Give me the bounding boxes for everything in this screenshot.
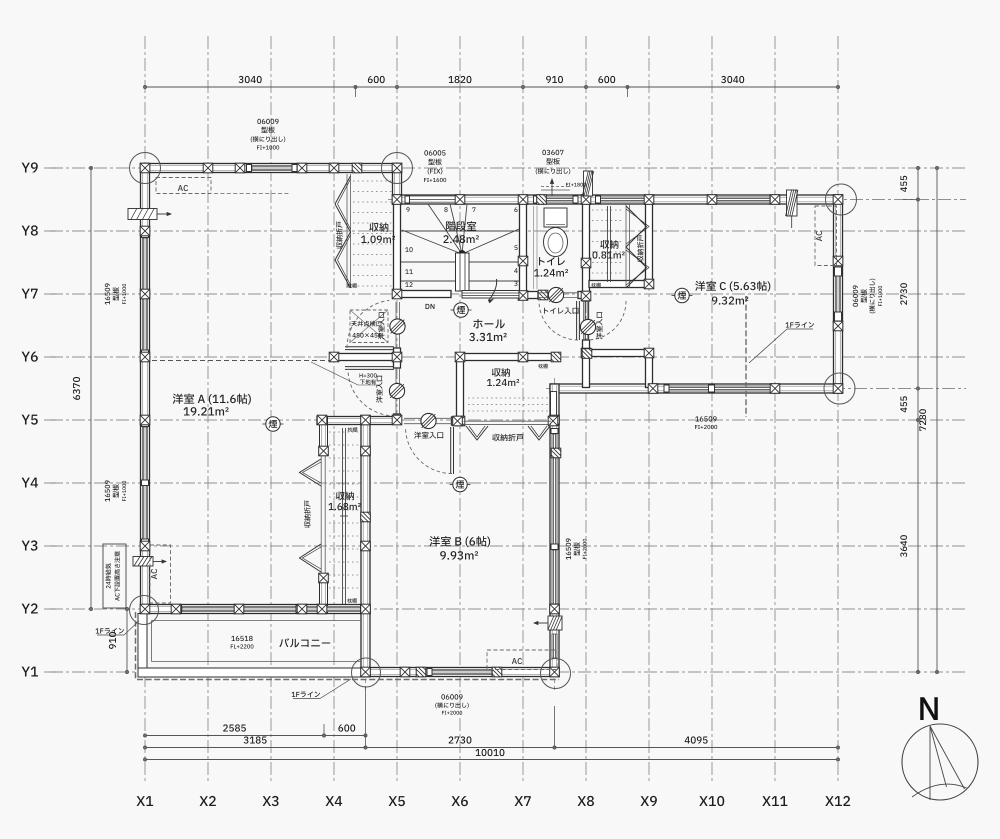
balcony west parapet	[138, 614, 147, 678]
stair tread numbers	[406, 207, 409, 212]
room B door leaf	[450, 427, 452, 474]
vent north wall at X8	[584, 171, 593, 196]
exterior wall: room C south wall	[550, 384, 843, 393]
closet1.09 folding door (west side)	[346, 174, 348, 288]
room A lower door leaf	[345, 366, 394, 368]
stair DN label	[426, 304, 435, 309]
closet1.68 hanger pipe	[342, 428, 344, 604]
bottom dimension row 3185/2730/4095	[145, 747, 838, 749]
corner node circles	[130, 153, 161, 184]
24h vent note box	[103, 544, 126, 608]
grid: offset wall centerlines (chain)	[388, 199, 966, 201]
balcony floor inner outline	[152, 620, 362, 622]
wall: closet0.81 east X9 (upper)	[646, 204, 653, 288]
axis labels Y9-Y1	[22, 667, 38, 677]
label roomC entrance	[596, 312, 602, 339]
wall: room C west X8 (below door)	[583, 340, 590, 388]
wall: closet1.24 east X7.5 (thin)	[551, 392, 557, 418]
room B east window label	[566, 538, 571, 559]
window 16509 room A west upper	[142, 238, 147, 350]
label window 03607	[542, 150, 563, 155]
window 16509 room A west lower	[142, 427, 147, 539]
closet1.68 label	[336, 491, 354, 500]
top dimension line 3040/600/1820/910/600/3040	[145, 86, 838, 88]
closet1.09 shelf dots	[353, 180, 393, 182]
exterior wall: step at X5 (Y9 down 455)	[393, 164, 402, 205]
window room C north 2	[716, 197, 770, 202]
window room C north 1	[600, 197, 645, 202]
exterior wall: room B east wall X7.5	[550, 384, 559, 677]
balcony window label	[231, 636, 252, 641]
1F line below balcony	[137, 679, 559, 681]
room C east window label	[853, 285, 858, 306]
wall: closet0.81 south	[589, 281, 653, 288]
wall: Y6 wall (X8-X9)	[583, 350, 653, 357]
wall: toilet south east seg	[578, 292, 590, 299]
room A upper door leaf	[345, 346, 394, 348]
window 06009 projection dashes	[214, 193, 290, 195]
bottom dimension row 2585/600	[145, 735, 366, 737]
stair winder rays	[402, 230, 462, 254]
balcony south parapet	[138, 668, 370, 677]
wall: hall west X5 seg (Y6 junction)	[394, 348, 401, 368]
stair railing to hall (L-band)	[462, 291, 519, 299]
window 03607 toilet north	[538, 197, 573, 202]
window 16518 room A south (balcony)	[182, 606, 296, 611]
room A upper door opening jamb lines	[395, 302, 397, 348]
vent west wall upper	[128, 209, 157, 220]
room C door opening lines	[583, 301, 585, 340]
exterior wall: west wall X1 (Y9-Y2)	[141, 164, 150, 614]
1F line in room C	[745, 296, 747, 417]
window 16509 room C south	[669, 386, 771, 391]
room A lower door handle	[389, 383, 404, 398]
right dimension 455/2730/455/3640	[917, 168, 919, 420]
window 06009 on north wall Y9	[252, 165, 292, 170]
wall: room A / room B divider X4.5 (Y5-Y1)	[361, 416, 370, 677]
smoke detector room A	[266, 417, 280, 431]
wall: closet1.24 north Y6	[457, 354, 559, 361]
exterior wall: north wall along Y9 (X1-X5)	[141, 164, 402, 173]
room A lower door opening jamb lines	[395, 368, 397, 414]
exterior wall: room B south wall Y1	[361, 668, 559, 677]
wall: X9 wall (Y6-south)	[646, 353, 653, 388]
AC box room A west	[150, 545, 171, 603]
window 06009 room C east wall	[835, 276, 840, 312]
balcony label	[279, 638, 330, 647]
room A upper door handle	[390, 319, 405, 334]
label fold door 0.81	[637, 235, 643, 262]
hall label	[473, 319, 505, 328]
columns (X-boxes) at wall/grid junctions	[140, 163, 150, 173]
toilet door handle	[548, 287, 563, 302]
window 06009 room B south	[432, 669, 492, 674]
room A lower door swing arc	[348, 369, 389, 416]
closet1.24 folding door (south side)	[464, 420, 552, 422]
label window 06009 top	[257, 119, 278, 124]
room B label	[429, 536, 490, 547]
stair treads horizontal	[401, 230, 519, 232]
wall: stair/toilet divider X7	[520, 204, 527, 299]
toilet door leaf	[576, 301, 578, 340]
AC box room A north	[156, 178, 211, 194]
label roomA upper entrance	[378, 312, 384, 339]
vent room B east wall	[548, 616, 562, 630]
wall: stair west X5 (upper)	[394, 204, 401, 298]
AC box room B south	[487, 650, 557, 670]
label fold door 1.68	[304, 500, 310, 527]
wall: toilet east / room C west X8 (upper)	[583, 204, 590, 301]
closet0.81 folding door (east side)	[625, 204, 627, 288]
stair room label	[446, 221, 476, 231]
closet0.81 label	[600, 240, 618, 249]
bottom dimension row 10010	[145, 759, 838, 761]
label window 06005	[424, 150, 445, 155]
stair descend arrow	[489, 279, 497, 301]
vent north wall at X11	[787, 190, 798, 216]
wall: Y5 jamb to X6	[452, 417, 464, 425]
1F line label bottom	[292, 691, 321, 697]
west window label upper	[105, 283, 110, 304]
label H300	[360, 373, 377, 377]
wall: closet1.68 west upper seg	[320, 417, 328, 456]
label toilet entrance	[544, 308, 578, 314]
smoke detector room B	[453, 477, 467, 491]
left dimension 6370	[90, 168, 92, 609]
smoke detector hall	[454, 303, 468, 317]
compass north arrow	[902, 724, 978, 800]
hatched columns	[352, 163, 362, 173]
closet1.24 shelf dots	[468, 397, 548, 399]
closet1.68 shelf dots	[329, 431, 360, 433]
room A partial-height wall line (H=300) along Y6	[152, 360, 330, 362]
toilet door opening lines	[538, 292, 578, 294]
closet1.68 west door track	[320, 455, 322, 575]
room C label	[695, 281, 770, 292]
label fold door 1.09	[336, 221, 342, 248]
room C door swing arc	[587, 301, 626, 340]
wall: stair bottom / hall north Y7	[394, 291, 452, 298]
smoke detector room C	[675, 288, 689, 302]
closet1.09 label	[369, 223, 388, 232]
vent west wall lower	[133, 557, 153, 567]
toilet bowl	[544, 228, 568, 257]
room C door handle	[580, 319, 595, 334]
room A upper door swing arc	[347, 300, 389, 348]
room B door opening lines	[404, 417, 452, 419]
wall: room A Y6 wall (X4-X5)	[331, 354, 401, 361]
wall: closet1.24 west X6	[457, 357, 464, 424]
exterior wall: north wall at Y9+455 (X5-X12)	[393, 195, 843, 204]
AC box room C east	[815, 206, 837, 266]
axis labels X1-X12	[137, 796, 154, 806]
room C door leaf	[584, 301, 586, 340]
toilet door swing arc	[539, 301, 578, 340]
right dimension 7280	[936, 168, 938, 672]
1F line label left	[96, 628, 125, 634]
wall: Y5 wall west part (closet1.68 top to X5)	[317, 417, 401, 425]
window room B east small	[552, 634, 557, 658]
grid: vertical modular grid lines X1-X12	[144, 36, 146, 784]
exterior wall: east wall X12 (room C)	[834, 195, 843, 393]
label roomB entrance	[414, 432, 443, 439]
window 06005 FIX above stair	[409, 196, 458, 202]
grid: horizontal modular grid lines Y1-Y9	[50, 671, 966, 673]
1F line west of balcony	[135, 612, 137, 680]
stair newel dot	[459, 251, 466, 258]
room B door handle	[421, 413, 436, 428]
label roomA lower entrance	[376, 376, 382, 403]
toilet label	[539, 257, 565, 265]
stair center railing vertical	[456, 253, 470, 291]
column X7 mid	[518, 256, 528, 266]
room B door swing arc	[406, 427, 453, 474]
shelf labels	[347, 283, 357, 288]
window 16509 room B east	[552, 434, 557, 546]
exterior wall: room A south wall Y2	[141, 605, 371, 614]
left dimension 910	[126, 609, 128, 672]
window 03607 projection lines	[541, 189, 570, 191]
west window label lower	[105, 480, 110, 501]
closet0.81 shelf dots	[592, 209, 623, 211]
toilet tank	[544, 208, 567, 227]
wall: hall west X5 seg (above Y5)	[394, 414, 401, 424]
room A label	[173, 394, 251, 405]
axis label leader dashes	[44, 671, 56, 673]
closet1.24 label	[492, 368, 510, 377]
closet0.81 hanger pipe	[607, 206, 609, 282]
room C south window label	[695, 416, 716, 421]
1F line label room C	[786, 322, 815, 328]
wall: toilet south west seg	[520, 292, 539, 299]
label fold door 1.24	[492, 434, 523, 441]
ceiling access hatch 450x450	[350, 310, 388, 343]
closet1.68 folding door (west side)	[300, 459, 322, 486]
toilet west lining	[533, 206, 535, 289]
wall: closet1.68 west lower seg	[320, 575, 328, 613]
room B south window label	[441, 694, 462, 699]
